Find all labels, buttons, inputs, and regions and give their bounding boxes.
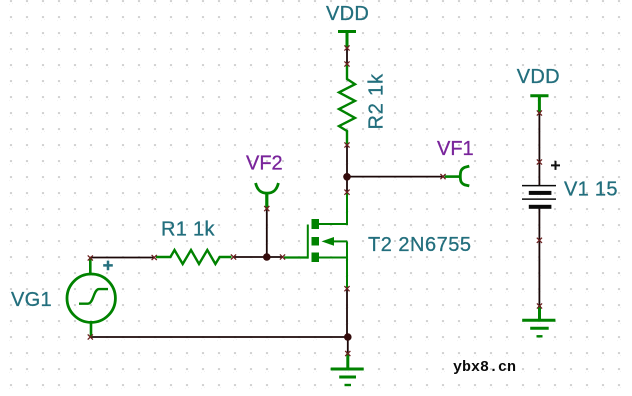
svg-text:VF2: VF2 <box>246 153 283 175</box>
svg-text:V1 15: V1 15 <box>564 179 618 201</box>
svg-text:ybx8.cn: ybx8.cn <box>453 359 516 376</box>
svg-text:T2 2N6755: T2 2N6755 <box>368 234 471 256</box>
svg-text:VG1: VG1 <box>11 289 52 311</box>
svg-text:R1 1k: R1 1k <box>161 219 215 241</box>
svg-text:VDD: VDD <box>326 3 369 25</box>
svg-text:VDD: VDD <box>517 66 560 88</box>
svg-text:R2 1k: R2 1k <box>366 73 388 129</box>
svg-text:VF1: VF1 <box>437 138 474 160</box>
